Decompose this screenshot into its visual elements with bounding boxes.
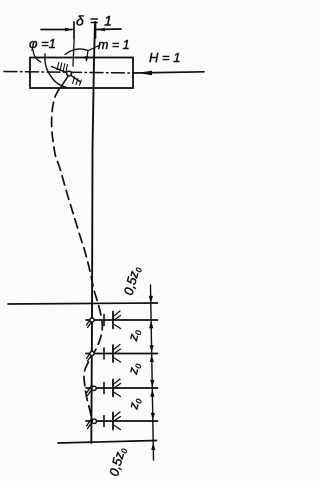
svg-text:φ =1: φ =1 [29, 36, 56, 51]
svg-text:δ = 1: δ = 1 [76, 13, 113, 29]
svg-text:H = 1: H = 1 [149, 50, 180, 65]
svg-text:z0: z0 [125, 396, 144, 412]
svg-text:z0: z0 [125, 327, 144, 343]
svg-text:m = 1: m = 1 [98, 38, 130, 52]
svg-text:0,5z0: 0,5z0 [106, 445, 129, 478]
svg-text:0,5z0: 0,5z0 [121, 264, 144, 297]
svg-text:z0: z0 [125, 361, 144, 377]
